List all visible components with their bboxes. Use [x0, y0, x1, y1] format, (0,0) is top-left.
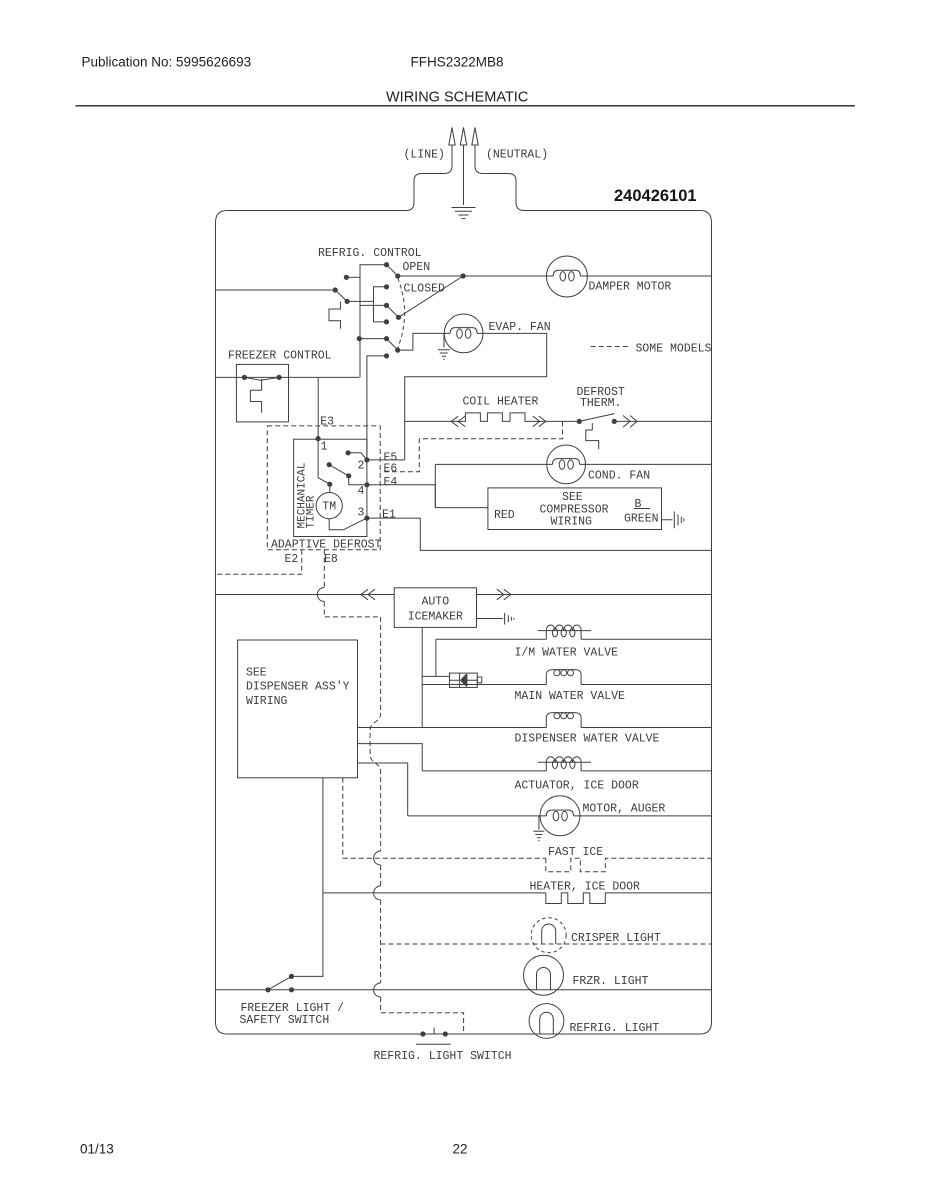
svg-text:CRISPER LIGHT: CRISPER LIGHT [571, 932, 661, 945]
svg-text:2: 2 [358, 460, 365, 473]
svg-text:SEE: SEE [246, 667, 267, 680]
svg-text:E1: E1 [382, 509, 396, 522]
svg-text:WIRING SCHEMATIC: WIRING SCHEMATIC [386, 90, 528, 106]
svg-text:1: 1 [321, 441, 328, 454]
svg-text:REFRIG. CONTROL: REFRIG. CONTROL [318, 247, 422, 260]
svg-text:3: 3 [358, 507, 365, 520]
svg-text:REFRIG. LIGHT SWITCH: REFRIG. LIGHT SWITCH [374, 1050, 512, 1063]
svg-text:ICEMAKER: ICEMAKER [408, 611, 463, 624]
svg-text:OPEN: OPEN [403, 261, 431, 274]
svg-text:(NEUTRAL): (NEUTRAL) [486, 149, 548, 162]
svg-text:E2: E2 [285, 553, 299, 566]
svg-text:E3: E3 [320, 416, 334, 429]
svg-text:01/13: 01/13 [80, 1142, 114, 1157]
svg-text:DISPENSER WATER VALVE: DISPENSER WATER VALVE [515, 733, 660, 746]
svg-text:FRZR. LIGHT: FRZR. LIGHT [573, 975, 649, 988]
svg-text:EVAP. FAN: EVAP. FAN [489, 321, 551, 334]
svg-text:GREEN: GREEN [624, 513, 659, 526]
svg-text:FFHS2322MB8: FFHS2322MB8 [411, 55, 504, 70]
svg-text:240426101: 240426101 [614, 187, 697, 205]
svg-text:E4: E4 [384, 476, 398, 489]
svg-text:B: B [635, 498, 642, 511]
svg-text:SAFETY SWITCH: SAFETY SWITCH [240, 1014, 330, 1027]
svg-text:Publication No: 5995626693: Publication No: 5995626693 [82, 55, 252, 70]
svg-text:TIMER: TIMER [306, 495, 318, 528]
svg-text:ADAPTIVE DEFROST: ADAPTIVE DEFROST [271, 539, 382, 552]
svg-text:COND. FAN: COND. FAN [588, 470, 650, 483]
svg-text:THERM.: THERM. [580, 397, 621, 410]
svg-text:E6: E6 [384, 463, 398, 476]
svg-text:AUTO: AUTO [422, 596, 450, 609]
svg-text:TM: TM [322, 501, 336, 514]
svg-text:RED: RED [494, 509, 515, 522]
svg-text:MAIN WATER VALVE: MAIN WATER VALVE [515, 690, 626, 703]
svg-text:SEE: SEE [562, 491, 583, 504]
svg-text:REFRIG. LIGHT: REFRIG. LIGHT [570, 1022, 660, 1035]
svg-text:I/M WATER VALVE: I/M WATER VALVE [515, 647, 619, 660]
svg-text:COIL HEATER: COIL HEATER [463, 396, 539, 409]
svg-text:WIRING: WIRING [246, 695, 288, 708]
svg-text:SOME MODELS: SOME MODELS [636, 343, 712, 356]
svg-text:(LINE): (LINE) [404, 149, 445, 162]
svg-text:4: 4 [358, 485, 365, 498]
svg-text:22: 22 [453, 1142, 468, 1157]
svg-text:DAMPER MOTOR: DAMPER MOTOR [589, 281, 672, 294]
svg-text:E8: E8 [324, 553, 338, 566]
svg-text:DISPENSER ASS'Y: DISPENSER ASS'Y [246, 681, 350, 694]
svg-text:CLOSED: CLOSED [404, 283, 446, 296]
svg-text:HEATER, ICE DOOR: HEATER, ICE DOOR [530, 881, 641, 894]
svg-text:ACTUATOR, ICE DOOR: ACTUATOR, ICE DOOR [515, 780, 639, 793]
svg-text:MOTOR, AUGER: MOTOR, AUGER [583, 803, 666, 816]
svg-text:FREEZER CONTROL: FREEZER CONTROL [228, 350, 332, 363]
svg-text:FAST ICE: FAST ICE [548, 846, 603, 859]
svg-text:WIRING: WIRING [551, 516, 593, 529]
